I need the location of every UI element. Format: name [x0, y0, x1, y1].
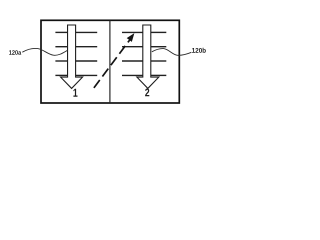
electrode bars right of arrow 2	[151, 32, 167, 75]
dashed diagonal arrow head	[127, 34, 133, 41]
hollow arrow 1 (left, pointing down)	[61, 25, 83, 88]
electrode bars left of arrow 1	[55, 32, 67, 75]
leader wire to label 120b	[152, 49, 192, 56]
label 120b	[192, 48, 206, 53]
dashed diagonal arrow (shaft)	[94, 40, 130, 88]
center divider wire	[109, 21, 111, 103]
enclosure box	[41, 20, 179, 103]
label 2	[145, 89, 149, 97]
label 1	[73, 89, 77, 97]
electrode bars left of arrow 2	[122, 32, 143, 75]
leader wire from label 120a	[22, 48, 67, 55]
label 120a	[9, 50, 21, 55]
electrode bars right of arrow 1	[76, 32, 98, 75]
hollow arrow 2 (right, pointing down)	[137, 25, 159, 88]
